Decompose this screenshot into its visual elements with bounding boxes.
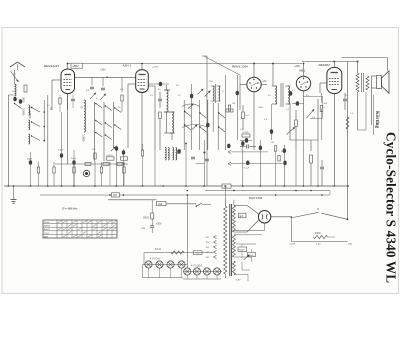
antenna [10,62,18,67]
resistor R2 [59,98,61,104]
resistor box 74 [194,251,203,255]
switch S3c [200,113,206,118]
lamp H3 [203,268,210,275]
svg-text:0,1MΩ: 0,1MΩ [243,132,249,134]
coil L5 oscillator [172,112,174,133]
wire RENS1234 anode [67,64,69,70]
wire RENS1264 cathode [253,92,255,150]
svg-text:+2V: +2V [262,80,267,83]
svg-text:0,0001: 0,0001 [107,155,114,157]
resistor RC2 [103,163,109,166]
trimmer C6 [100,94,106,101]
capacitor blob 284b [283,161,286,166]
capacitor blob b3 [236,91,239,96]
svg-text:RENS 1264: RENS 1264 [232,65,248,69]
bus3 junction dots [109,194,111,196]
wire v318 [317,140,319,186]
wire RENS1264 grid [240,84,247,86]
switch S3a [185,112,191,117]
capacitor blob 271 [270,129,273,134]
wire v155 [154,150,156,186]
resistor rowB 3 [73,167,75,173]
capacitor blob osc [159,82,162,87]
wire OT primary bottom [357,92,359,130]
switch S1b [32,122,41,127]
resistor R5 [121,95,123,101]
wire left edge [7,95,9,186]
svg-text:1M: 1M [92,149,95,151]
wire mains bottom [292,241,348,243]
wire v296 [295,150,297,186]
voltage selector taps [214,235,217,237]
svg-text:AB 1: AB 1 [298,68,306,72]
coil L2b [29,120,30,130]
resistor R40 [310,155,313,163]
lamp L1 [145,261,152,268]
resistor on B+ rail [346,117,349,129]
wire heater supply [144,252,212,254]
coil L6 band2 [84,100,86,132]
capacitor C8 [101,87,105,89]
wire rectifier cathode down [264,223,266,231]
osc IF coil core [215,84,217,103]
label +85V box [71,63,83,68]
lamp H4 [213,268,220,275]
svg-text:4 V 0,35 A: 4 V 0,35 A [191,265,202,268]
lamp L2 [156,261,163,268]
switch arrow bottom [244,255,250,261]
wire lamp row2 return [183,278,221,280]
switch mains S [293,212,319,217]
wire diagonal top feed [204,56,240,75]
wire OT primary top [357,62,359,74]
wire RENS1264 screen [261,84,267,86]
wire rectifier anode 2 [234,231,247,233]
resistor R31 box [242,134,250,137]
capacitor C14 [191,156,195,158]
resistor antenna [24,85,27,92]
switch S3e [219,113,225,118]
svg-text:Zf = 468 kHz: Zf = 468 kHz [62,207,78,211]
capacitor 30uF left [29,160,32,165]
wire IF feed [239,75,241,85]
svg-text:0,0005: 0,0005 [22,108,25,116]
wire lamp row 1 [143,264,188,266]
capacitor C25 [343,98,347,100]
transformer primary [224,206,227,274]
svg-text:+230V: +230V [152,66,159,68]
wire cathode bottom [234,230,265,232]
svg-text:Welle: Welle [44,222,50,224]
capacitor trimmer 114 [115,146,118,151]
switch S2e [105,123,112,128]
resistor 141 [141,150,143,156]
svg-text:2MΩ: 2MΩ [121,163,126,165]
svg-text:30μF: 30μF [27,159,33,161]
wire bus1 to switch [329,191,331,196]
switch antenna [15,104,22,109]
wire IF secondary down [289,104,291,140]
svg-text:ASH1: ASH1 [44,228,50,231]
padder arc 1 [182,104,200,107]
capacitor blob b1 [190,94,193,99]
svg-text:S: S [317,207,319,211]
svg-text:Körting: Körting [374,111,379,128]
wire chassis bus 3 [40,194,330,196]
wire IF primary top [272,64,274,87]
wire top HT bus [68,63,303,65]
wire RENS1234 grid [52,79,61,81]
lamp L3 [167,261,174,268]
capacitor C40 [320,166,324,168]
resistor R10 [159,112,162,119]
wire AB1 bottom link [290,139,318,141]
capacitor C30 [246,145,248,149]
lamp H1 [184,268,191,275]
svg-text:+50V: +50V [156,224,162,226]
svg-text:0,1μF: 0,1μF [58,150,64,152]
bus junction dots [8,185,10,187]
svg-text:RES964: RES964 [319,63,331,67]
table tube data [43,220,117,238]
capacitor blob 260 [259,146,262,151]
trimmer C12 [205,91,211,97]
capacitor blob r31 [245,138,248,143]
wire oscillator rail [206,56,208,186]
tube RGN1064 [258,211,270,223]
wire RENS1264 anode [253,64,255,78]
capacitor 30uF 1 [238,247,247,252]
wire interstage [75,76,136,78]
wire vol bottom [310,117,323,119]
svg-text:+250: +250 [294,64,300,68]
resistor rowB 1 [37,167,39,173]
wire bus to dropper [151,200,153,213]
resistor R20 [295,120,298,127]
resistor R25 [320,106,323,112]
capacitor blob det2 [296,101,299,106]
svg-text:4μF: 4μF [239,216,244,218]
svg-text:2kΩ: 2kΩ [324,103,328,105]
resistor box 150 second [157,202,167,206]
wire mains right drop [347,62,349,220]
wire transformer bottom tap [234,234,262,236]
potentiometer volume [306,109,314,118]
switch S1a [32,108,41,113]
wire TA left [196,163,205,165]
svg-text:1264: 1264 [44,233,50,235]
svg-text:5000: 5000 [258,107,264,109]
antenna lightning arrow [11,71,19,82]
capacitor blob 178 [177,149,180,154]
output transformer core [361,73,363,92]
resistor box 2M [121,157,128,160]
wire ASH1 anode coupling [148,83,169,85]
switch S2d [105,106,112,111]
node RENS1234 anode junction [67,63,69,65]
resistor 7M [274,146,276,152]
resistor RB box 150ohm [112,193,120,197]
tube RENS1264 [247,77,261,91]
switch S3d [200,127,206,132]
capacitor 4uF box [239,213,247,218]
wire v185 [185,143,187,145]
svg-text:2,5V: 2,5V [236,280,241,282]
wire cathode v [67,94,69,165]
coil OT primary [356,73,359,92]
tube RENS1234 [61,69,75,94]
switch S1c [32,136,41,141]
capacitor antenna blob a [13,97,16,102]
wire top bus right [302,61,359,63]
svg-text:150: 150 [113,194,118,197]
svg-text:0,5μF: 0,5μF [244,168,250,170]
wire speaker leads [372,75,377,77]
capacitor C50 [150,225,154,227]
resistor RB2 [226,109,233,112]
svg-text:150: 150 [158,203,163,206]
wire field return [365,92,367,130]
capacitor C10 [158,98,162,100]
terminal TA1 [228,150,231,152]
svg-text:~0,5A: ~0,5A [289,243,295,246]
coil L2c [29,134,30,144]
wire band3 rails [183,100,185,150]
lamp H2 [193,268,200,275]
capacitor blob 284a [283,148,286,153]
coil osc IF a [213,86,214,101]
capacitor 30uF 2 [248,253,256,257]
resistor rowB 4 [100,167,102,173]
wire dropper down [151,219,153,225]
svg-text:2M: 2M [80,107,83,109]
wire bus segment 4c [202,204,211,206]
switch S3f [219,127,225,132]
wire speaker feed [342,57,388,59]
wire caps bottom [241,262,243,270]
capacitor blob b2 [206,123,209,128]
capacitor 10uF [72,160,75,165]
svg-text:1M: 1M [232,103,235,105]
wire lamp row1 return [142,265,144,278]
coil osc IF b [218,86,219,101]
wire heater drop [186,195,188,268]
antenna coil L1 [15,84,17,96]
svg-text:RENS: RENS [44,226,51,228]
wire vol right [322,97,324,119]
IF transformer core [280,83,282,107]
svg-text:1,3Ω: 1,3Ω [141,228,146,230]
padder arc 2 [182,125,208,128]
potentiometer knob [83,170,89,176]
wire band1 right [47,95,49,186]
transformer core [229,204,231,276]
resistor 279 [278,156,280,162]
coil IF secondary [288,86,290,104]
resistor RB1 [228,105,230,111]
wire ASH1 grid right [148,85,155,87]
transformer secondary HT [232,206,235,233]
speaker [377,76,382,89]
coil IF primary [275,86,277,104]
resistor rowB 5 [123,167,125,173]
switch S2g [115,108,122,113]
transformer secondary 4V [232,235,235,258]
svg-text:6,3 Ω: 6,3 Ω [155,248,161,251]
tube AB1 [296,76,310,90]
wire row2 stubs [186,275,188,279]
wire RES964 anode [333,62,335,68]
junction 204 [203,152,205,154]
resistor 1M left [94,153,96,159]
wire vol top [304,96,323,98]
capacitor C15 [205,158,209,160]
wire RENS1234 cathode [67,94,69,111]
svg-text:Cyclo-Selector S 4340 WL: Cyclo-Selector S 4340 WL [384,132,399,283]
wire bus segment 4 [108,199,157,201]
wire selector feed [211,252,214,254]
trimmer C5 [90,93,96,100]
coil OT secondary [366,76,369,90]
svg-text:0,0005: 0,0005 [82,134,85,142]
wire transformer top [224,186,226,199]
page frame [2,28,399,294]
coil pair L8 [173,148,174,161]
coil pair L7 [165,148,166,161]
wire ASH1 grid left [128,83,136,85]
capacitor blob TA [227,144,230,149]
wire v271 mid [271,104,273,140]
svg-text:+10V: +10V [100,69,106,72]
capacitor blob 242 [241,141,244,146]
bus2 junction dots [187,190,189,192]
svg-text:7M: 7M [271,142,274,144]
wire anode line ASH1 [141,64,143,70]
svg-text:4 V 0,3 A: 4 V 0,3 A [150,258,160,261]
switch S2h [115,125,122,130]
potentiometer R21 arrow [287,127,296,135]
wire ASH1 cathode [141,93,143,151]
wire osc link [166,112,168,133]
transformer secondary 2.5V [232,261,235,275]
wire RES964 cathode [333,94,335,186]
terminal TA2 [228,162,231,164]
wire chassis bus 1 [4,185,348,187]
resistor R300 [151,213,154,219]
wire band2 rails [94,102,96,161]
resistor RC3 [117,163,123,166]
wire cap links [241,244,243,247]
wire lamp row 2 [183,271,222,273]
lamp L4 [178,261,185,268]
capacitor blob det1 [289,91,292,96]
wire AB1 top [303,64,305,77]
wire band1 rail [43,100,45,142]
resistor 400ohm [314,235,328,238]
wire rectifier output [271,216,292,218]
trimmer C11 [198,89,204,95]
svg-text:300Ω: 300Ω [143,218,149,220]
wire r31 [240,139,252,141]
coil L4 oscillator [167,90,169,112]
resistor box 0,0001 [107,157,115,160]
wire bus segment 4b [166,203,196,205]
svg-text:2,5V: 2,5V [316,244,321,246]
svg-text:ASH 1: ASH 1 [122,64,132,68]
wire AB1 cathode [303,91,305,140]
capacitor antenna blob b [19,99,22,104]
svg-text:+85V: +85V [73,64,79,68]
switch S2f [105,135,112,140]
capacitor C4 [71,98,75,100]
tube ASH1 [136,70,149,93]
resistor RC1 [85,163,91,166]
svg-text:20Ω: 20Ω [348,244,352,246]
coil L2a [29,105,30,115]
node bus right [347,185,349,187]
capacitor C7 [90,86,94,88]
ground symbol left [13,186,15,200]
wire v303 [303,140,305,186]
resistor heater dropper [171,251,184,254]
capacitor 122 [122,150,125,155]
capacitor 0,1 cathode [60,153,63,158]
switch bus [196,203,202,206]
wire RES964 grid [320,82,327,84]
wire rectifier anode 1 [234,205,247,207]
wire output bottom [358,129,367,131]
wire det [292,103,304,105]
switch S3b [185,125,191,130]
capacitor blob 247 [246,161,249,166]
switch S2c [96,133,103,138]
wire coupling row [55,163,128,165]
svg-text:400Ω: 400Ω [315,233,321,235]
resistor rowB 2 [53,167,55,173]
wire right rule [373,95,375,135]
tube RES964 [327,67,342,93]
svg-text:RENS1234: RENS1234 [44,64,59,68]
switch S2b [96,121,103,126]
resistor bus box 7.5ohm [222,184,231,188]
svg-text:0000: 0000 [21,97,24,103]
wire chassis bus 2 [205,190,330,192]
svg-text:30μF: 30μF [239,250,245,252]
switch S2a [96,104,103,109]
resistor R30 [242,112,245,119]
svg-text:RGN 1064: RGN 1064 [249,196,263,200]
